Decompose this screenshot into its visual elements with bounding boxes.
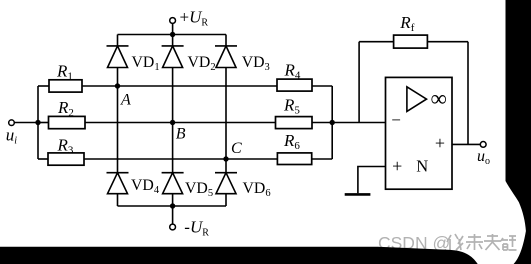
wire row A middle (82, 85, 277, 87)
wire feedback top right (427, 41, 468, 43)
svg-text:+: + (392, 156, 402, 176)
svg-text:A: A (120, 91, 131, 108)
wire input to junction (14, 122, 38, 124)
svg-text:R1: R1 (56, 62, 73, 83)
terminal ui (9, 120, 15, 126)
svg-text:B: B (176, 126, 186, 143)
wire row B right to op-amp (312, 122, 386, 124)
wire row C right (312, 158, 333, 160)
terminal +UR (170, 18, 176, 24)
terminal uo (480, 142, 486, 148)
diode VD6 (215, 173, 237, 194)
wire row A left (38, 85, 49, 87)
wire row B middle (85, 122, 276, 124)
diode VD3 (215, 46, 237, 68)
ground (345, 193, 371, 196)
junction -UR bus (170, 203, 175, 208)
wire column A vertical (117, 35, 119, 46)
svg-text:VD1: VD1 (132, 54, 160, 73)
wire row A right (312, 85, 332, 87)
svg-text:R6: R6 (283, 131, 300, 152)
resistor R6 (277, 153, 311, 165)
svg-text:N: N (416, 156, 428, 175)
wire feedback vertical right (467, 42, 469, 145)
wire column C vertical (225, 35, 227, 46)
resistor R2 (49, 116, 86, 128)
svg-text:VD4: VD4 (131, 177, 160, 196)
op-amp U1 box (386, 77, 453, 189)
svg-text:C: C (231, 140, 242, 157)
junction inverting node (330, 120, 335, 125)
wire bottom bus (118, 205, 227, 207)
wire right vertical connector (331, 86, 333, 159)
svg-text:∞: ∞ (431, 86, 447, 111)
resistor R4 (277, 79, 312, 91)
watermark CJK imitation glyphs (447, 234, 517, 250)
node A dot (115, 83, 120, 88)
resistor R5 (276, 117, 313, 129)
wire row B left (38, 122, 49, 124)
diode VD1 (107, 46, 129, 68)
svg-text:VD5: VD5 (185, 180, 213, 199)
node B dot (170, 120, 175, 125)
svg-text:ui: ui (6, 125, 17, 146)
svg-text:VD2: VD2 (188, 54, 216, 73)
svg-text:R2: R2 (57, 98, 74, 119)
junction +UR bus (170, 32, 175, 37)
wire +UR stub (172, 23, 174, 34)
op-amp triangle symbol (407, 87, 427, 112)
svg-text:R5: R5 (283, 96, 300, 117)
svg-text:-UR: -UR (184, 218, 209, 239)
svg-text:R3: R3 (57, 136, 74, 157)
wire noninverting input (358, 167, 386, 194)
svg-text:VD6: VD6 (243, 180, 271, 199)
diode VD2 (162, 46, 184, 68)
junction input (35, 120, 40, 125)
resistor Rf (394, 35, 428, 48)
wire row C left (38, 158, 48, 160)
wire feedback top left (359, 41, 394, 43)
wire top bus (118, 34, 227, 36)
terminal -UR (170, 224, 176, 230)
resistor R3 (48, 153, 84, 165)
diode VD4 (107, 173, 129, 194)
node C dot (223, 156, 228, 161)
svg-text:R4: R4 (284, 61, 301, 82)
svg-text:−: − (391, 111, 401, 130)
black transparent strip bottom (0, 247, 478, 264)
wire row C middle (84, 158, 277, 160)
black transparent band right (506, 0, 531, 264)
svg-text:Rf: Rf (399, 13, 414, 34)
wire feedback vertical left (358, 42, 360, 123)
svg-text:+: + (435, 133, 445, 153)
wire output (452, 143, 480, 145)
wire column B vertical (172, 35, 174, 46)
svg-text:+UR: +UR (180, 7, 209, 28)
wire left vertical branch (37, 86, 39, 159)
resistor R1 (49, 80, 82, 92)
diode VD5 (162, 173, 184, 194)
svg-text:VD3: VD3 (242, 54, 270, 73)
svg-text:uo: uo (477, 148, 490, 167)
wire -UR stub (172, 206, 174, 224)
